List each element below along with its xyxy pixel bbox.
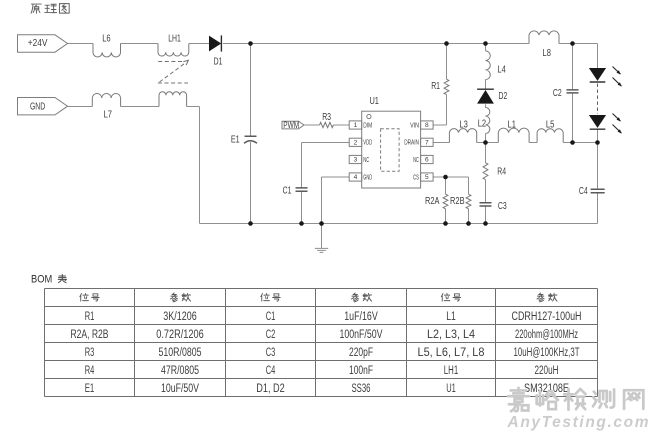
svg-text:E1: E1 — [85, 381, 95, 395]
svg-text:L5: L5 — [546, 120, 555, 131]
svg-text:C1: C1 — [283, 185, 292, 196]
svg-text:1: 1 — [354, 122, 358, 129]
svg-text:E1: E1 — [231, 135, 240, 146]
svg-text:GND: GND — [363, 172, 372, 181]
svg-text:100nF/50V: 100nF/50V — [340, 327, 384, 341]
svg-text:C4: C4 — [266, 363, 276, 377]
svg-text:L5, L6, L7, L8: L5, L6, L7, L8 — [418, 345, 485, 359]
svg-text:D1: D1 — [214, 57, 223, 68]
svg-text:BOM: BOM — [31, 274, 52, 286]
svg-text:R1: R1 — [85, 309, 95, 323]
svg-text:LH1: LH1 — [168, 34, 181, 45]
svg-text:GND: GND — [30, 101, 45, 112]
svg-text:CDRH127-100uH: CDRH127-100uH — [512, 309, 582, 323]
svg-text:PWM: PWM — [283, 120, 299, 130]
svg-text:L4: L4 — [497, 64, 506, 75]
svg-text:10uH@100KHz,3T: 10uH@100KHz,3T — [514, 345, 580, 359]
svg-text:5: 5 — [425, 174, 429, 181]
svg-text:SS36: SS36 — [352, 381, 371, 395]
svg-text:220uH: 220uH — [535, 363, 559, 377]
svg-text:R3: R3 — [85, 345, 95, 359]
svg-text:3K/1206: 3K/1206 — [163, 309, 197, 323]
svg-text:VIN: VIN — [410, 120, 419, 129]
svg-text:7: 7 — [425, 140, 429, 147]
svg-text:LH1: LH1 — [444, 363, 459, 377]
svg-text:3: 3 — [354, 157, 358, 164]
svg-text:L3: L3 — [459, 120, 468, 131]
svg-text:220ohm@100MHz: 220ohm@100MHz — [515, 327, 578, 341]
svg-text:47R/0805: 47R/0805 — [161, 363, 199, 377]
svg-text:C1: C1 — [266, 309, 276, 323]
svg-text:6: 6 — [425, 157, 429, 164]
svg-text:L2: L2 — [478, 119, 486, 130]
svg-text:8: 8 — [425, 122, 429, 129]
svg-text:+24V: +24V — [28, 38, 48, 49]
svg-text:U1: U1 — [446, 381, 456, 395]
svg-text:4: 4 — [354, 174, 358, 181]
svg-text:100nF: 100nF — [349, 363, 373, 377]
svg-text:R4: R4 — [497, 167, 506, 178]
svg-text:L7: L7 — [104, 110, 112, 121]
svg-text:D1, D2: D1, D2 — [256, 381, 285, 395]
svg-text:10uF/50V: 10uF/50V — [161, 381, 200, 395]
svg-text:R3: R3 — [322, 112, 331, 123]
svg-text:C2: C2 — [553, 88, 562, 99]
svg-text:1uF/16V: 1uF/16V — [344, 309, 378, 323]
svg-text:U1: U1 — [369, 96, 379, 107]
svg-text:NC: NC — [413, 155, 419, 164]
svg-text:C4: C4 — [579, 186, 588, 197]
svg-text:D2: D2 — [499, 91, 508, 102]
svg-text:AnyTesting.com: AnyTesting.com — [507, 414, 649, 431]
svg-text:L2, L3, L4: L2, L3, L4 — [427, 327, 475, 341]
svg-text:R2A: R2A — [425, 196, 440, 207]
svg-text:R2A, R2B: R2A, R2B — [71, 327, 109, 341]
svg-text:L8: L8 — [543, 48, 552, 59]
svg-text:C3: C3 — [266, 345, 276, 359]
svg-text:C3: C3 — [498, 201, 507, 212]
svg-text:R1: R1 — [431, 81, 440, 92]
svg-text:510R/0805: 510R/0805 — [159, 345, 202, 359]
svg-text:L1: L1 — [446, 309, 456, 323]
svg-text:NC: NC — [363, 155, 369, 164]
svg-text:220pF: 220pF — [349, 345, 373, 359]
svg-text:L1: L1 — [508, 120, 517, 131]
svg-text:L6: L6 — [102, 34, 111, 45]
svg-text:0.72R/1206: 0.72R/1206 — [156, 327, 204, 341]
svg-text:R2B: R2B — [450, 196, 465, 207]
svg-text:R4: R4 — [85, 363, 95, 377]
svg-text:C2: C2 — [266, 327, 276, 341]
svg-text:2: 2 — [354, 140, 358, 147]
svg-text:DRAIN: DRAIN — [404, 138, 419, 147]
svg-text:DIM: DIM — [363, 120, 372, 129]
svg-text:VDD: VDD — [363, 138, 372, 147]
svg-text:CS: CS — [413, 172, 419, 181]
